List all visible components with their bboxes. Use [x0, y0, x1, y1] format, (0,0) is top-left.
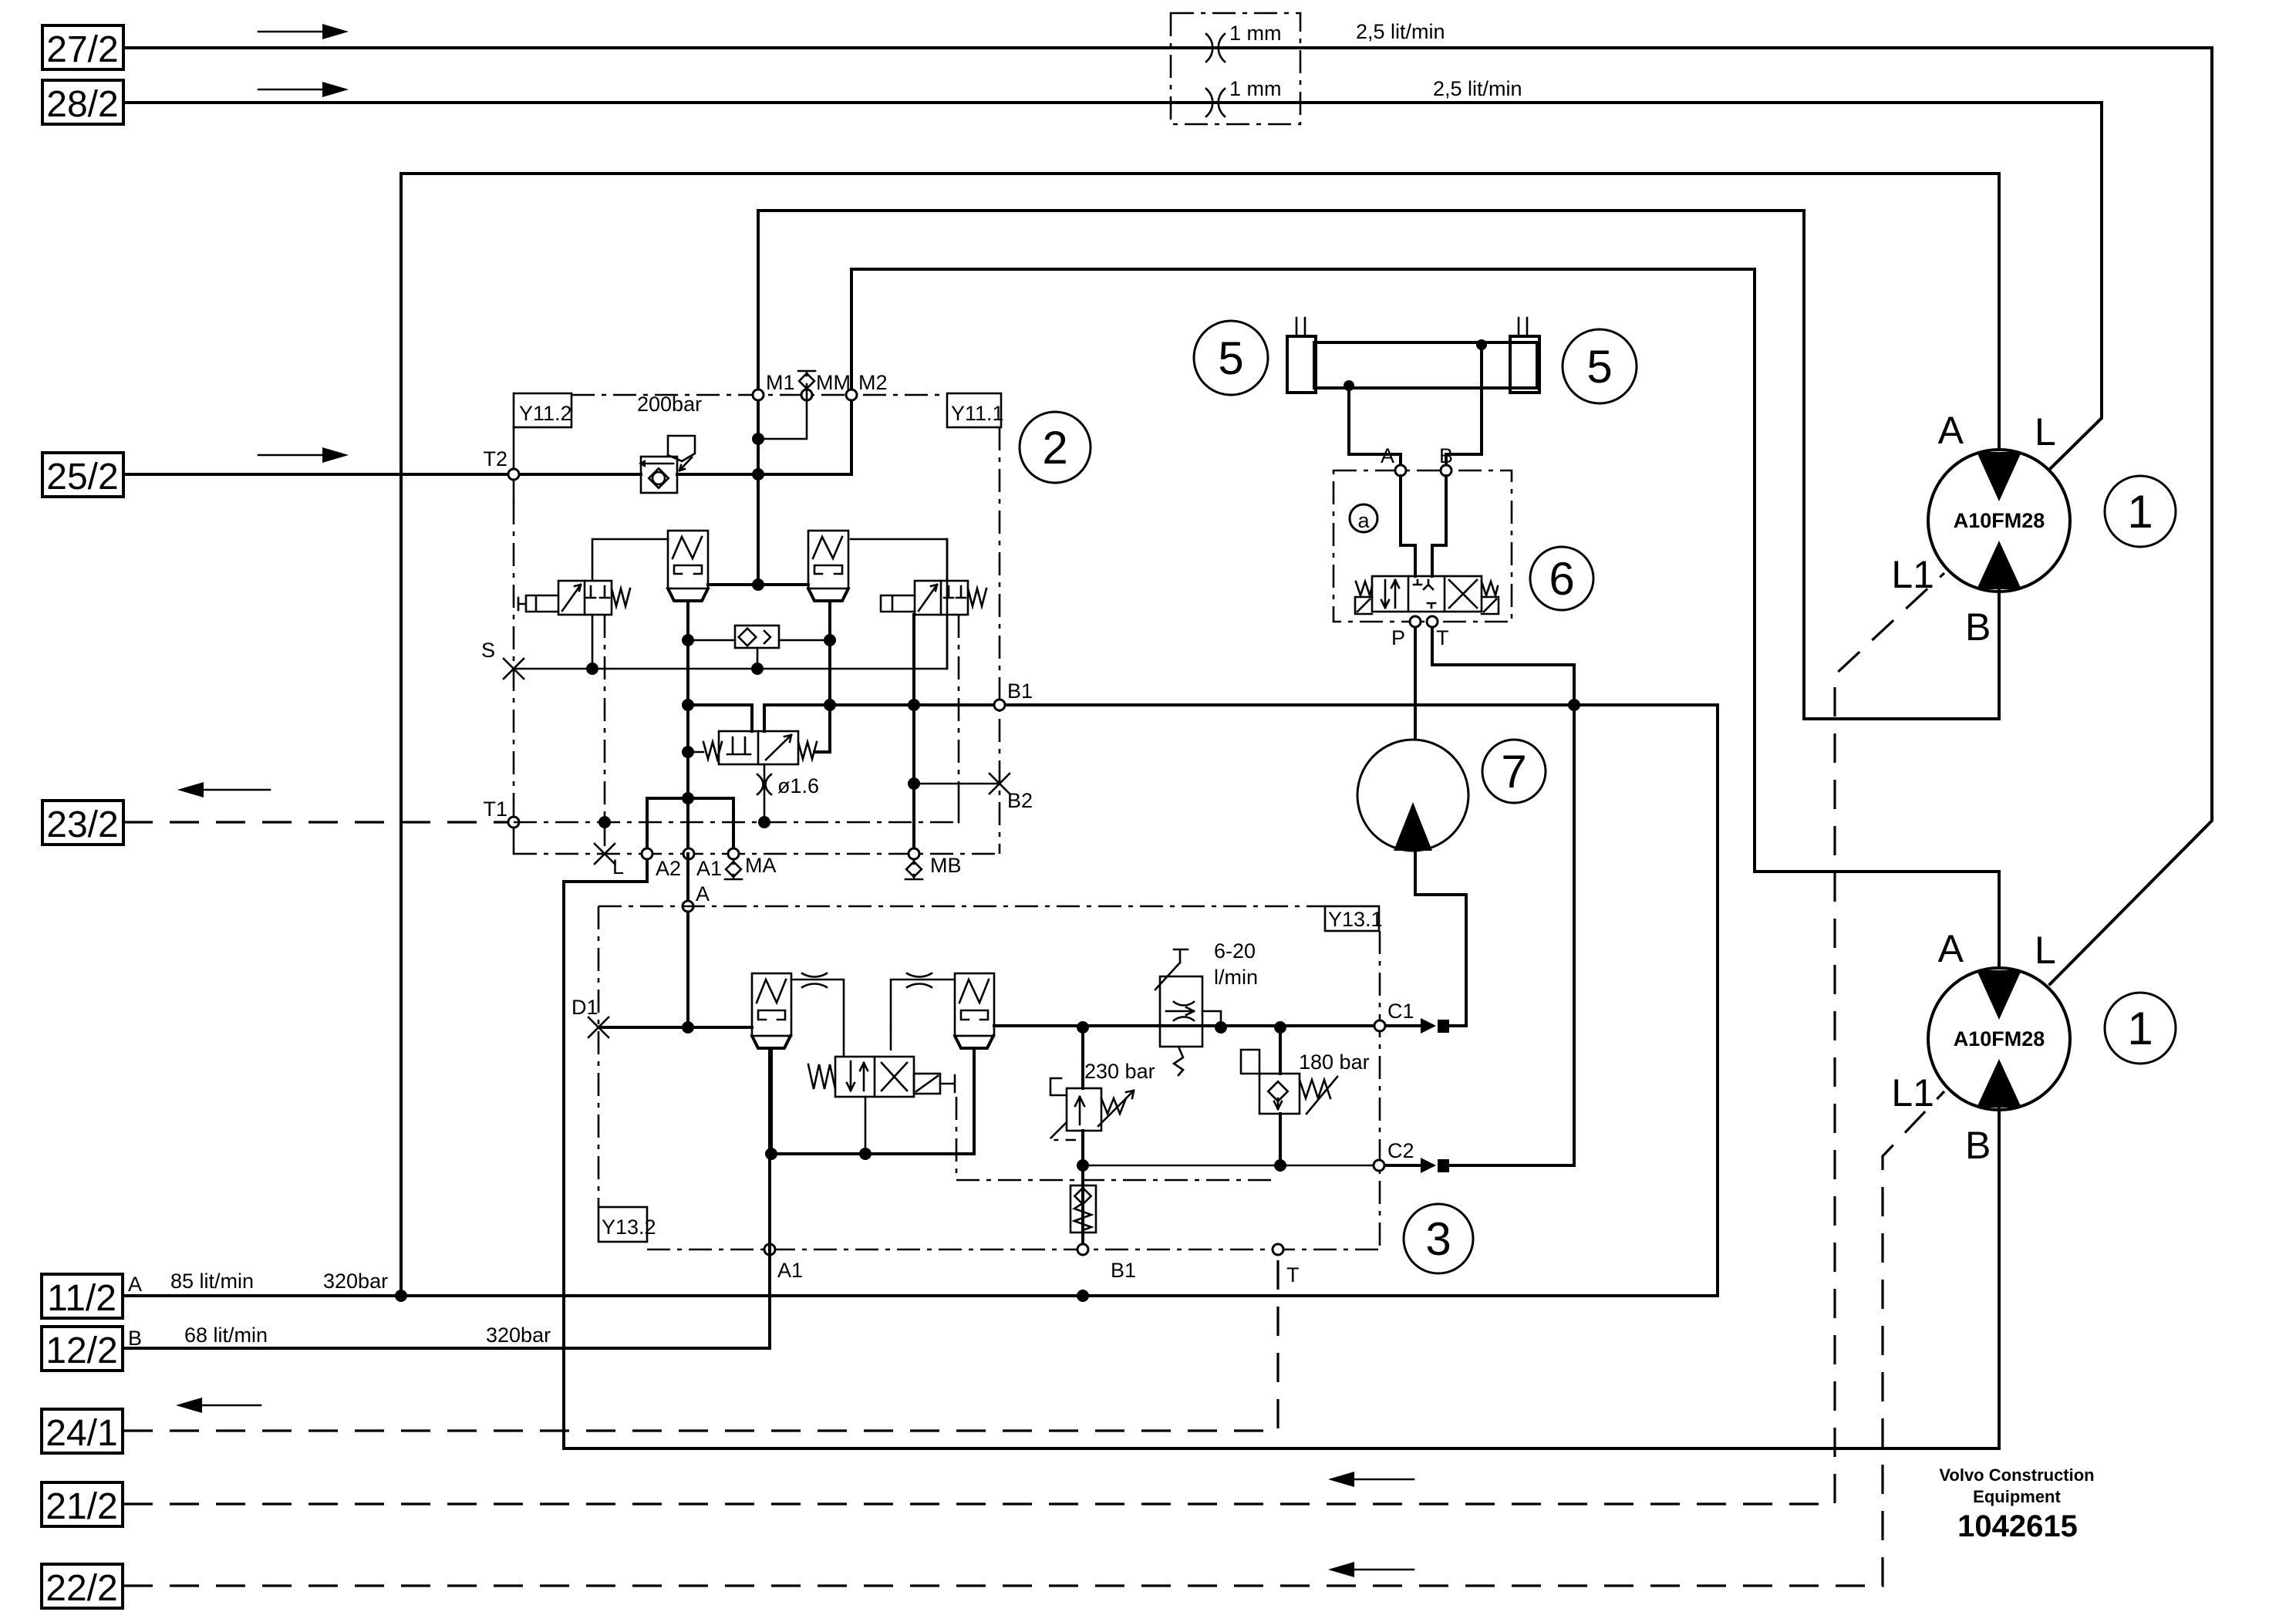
- svg-text:B: B: [128, 1327, 142, 1350]
- svg-text:2: 2: [1042, 422, 1067, 474]
- svg-text:MM: MM: [816, 371, 851, 394]
- svg-text:1: 1: [2127, 486, 2153, 538]
- svg-text:1: 1: [2127, 1003, 2153, 1054]
- svg-text:T2: T2: [483, 447, 507, 470]
- svg-text:B: B: [1965, 1124, 1991, 1167]
- svg-text:180 bar: 180 bar: [1299, 1050, 1370, 1074]
- svg-text:6-20: 6-20: [1214, 939, 1256, 963]
- svg-text:B: B: [1439, 444, 1453, 467]
- svg-text:A10FM28: A10FM28: [1954, 509, 2045, 532]
- svg-text:5: 5: [1218, 332, 1243, 384]
- svg-text:12/2: 12/2: [46, 1330, 117, 1371]
- svg-text:L: L: [2035, 929, 2056, 972]
- svg-text:A: A: [696, 882, 710, 905]
- svg-text:A2: A2: [656, 857, 681, 880]
- svg-text:1042615: 1042615: [1957, 1509, 2078, 1543]
- svg-text:27/2: 27/2: [46, 29, 118, 70]
- svg-text:1 mm: 1 mm: [1229, 77, 1282, 100]
- svg-text:B1: B1: [1111, 1259, 1136, 1282]
- svg-text:Volvo Construction: Volvo Construction: [1939, 1465, 2094, 1485]
- svg-text:L1: L1: [1891, 1071, 1934, 1114]
- svg-text:Y13.2: Y13.2: [602, 1216, 656, 1239]
- svg-text:A: A: [1938, 409, 1964, 452]
- svg-text:L: L: [612, 855, 624, 878]
- svg-text:2,5 lit/min: 2,5 lit/min: [1356, 20, 1445, 43]
- svg-text:5: 5: [1586, 341, 1612, 393]
- svg-text:320bar: 320bar: [486, 1324, 551, 1347]
- svg-text:B2: B2: [1007, 789, 1033, 812]
- svg-text:A1: A1: [696, 857, 722, 880]
- svg-text:A: A: [1381, 444, 1394, 467]
- svg-text:A: A: [1938, 927, 1964, 970]
- svg-text:23/2: 23/2: [46, 804, 118, 845]
- svg-text:21/2: 21/2: [46, 1486, 117, 1527]
- svg-text:A: A: [128, 1273, 142, 1296]
- svg-text:A10FM28: A10FM28: [1954, 1027, 2045, 1050]
- svg-text:2,5 lit/min: 2,5 lit/min: [1433, 77, 1522, 100]
- svg-text:320bar: 320bar: [323, 1270, 388, 1293]
- svg-text:MB: MB: [930, 854, 962, 877]
- svg-text:11/2: 11/2: [47, 1278, 116, 1319]
- svg-text:D1: D1: [571, 996, 598, 1019]
- svg-text:P: P: [1391, 626, 1405, 649]
- svg-text:M2: M2: [858, 371, 888, 394]
- svg-text:M1: M1: [766, 371, 795, 394]
- svg-text:28/2: 28/2: [46, 84, 118, 125]
- svg-text:22/2: 22/2: [46, 1568, 117, 1609]
- svg-text:T1: T1: [483, 798, 507, 821]
- svg-text:C2: C2: [1387, 1139, 1414, 1162]
- svg-text:85 lit/min: 85 lit/min: [170, 1270, 254, 1293]
- svg-text:C1: C1: [1387, 1000, 1414, 1023]
- svg-text:68 lit/min: 68 lit/min: [184, 1324, 268, 1347]
- svg-text:Y11.1: Y11.1: [951, 402, 1004, 425]
- svg-text:Y13.1: Y13.1: [1328, 908, 1383, 931]
- svg-text:a: a: [1357, 509, 1370, 532]
- svg-text:24/1: 24/1: [46, 1413, 117, 1454]
- svg-text:1 mm: 1 mm: [1229, 22, 1282, 45]
- svg-text:3: 3: [1425, 1213, 1451, 1265]
- svg-text:l/min: l/min: [1214, 966, 1258, 989]
- svg-text:L1: L1: [1891, 553, 1934, 596]
- svg-text:B1: B1: [1007, 679, 1033, 703]
- svg-text:7: 7: [1501, 746, 1526, 798]
- svg-text:L: L: [2035, 410, 2056, 454]
- svg-text:200bar: 200bar: [637, 393, 702, 416]
- svg-text:Y11.2: Y11.2: [519, 402, 572, 425]
- svg-text:6: 6: [1549, 553, 1574, 605]
- svg-text:230 bar: 230 bar: [1084, 1060, 1155, 1083]
- svg-text:A1: A1: [777, 1259, 803, 1282]
- svg-text:B: B: [1965, 605, 1991, 649]
- svg-text:S: S: [481, 639, 495, 662]
- svg-text:25/2: 25/2: [46, 457, 118, 497]
- svg-text:T: T: [1286, 1263, 1300, 1286]
- svg-text:ø1.6: ø1.6: [777, 774, 819, 798]
- svg-text:MA: MA: [745, 854, 777, 877]
- svg-text:Equipment: Equipment: [1973, 1487, 2061, 1506]
- svg-text:T: T: [1436, 626, 1449, 649]
